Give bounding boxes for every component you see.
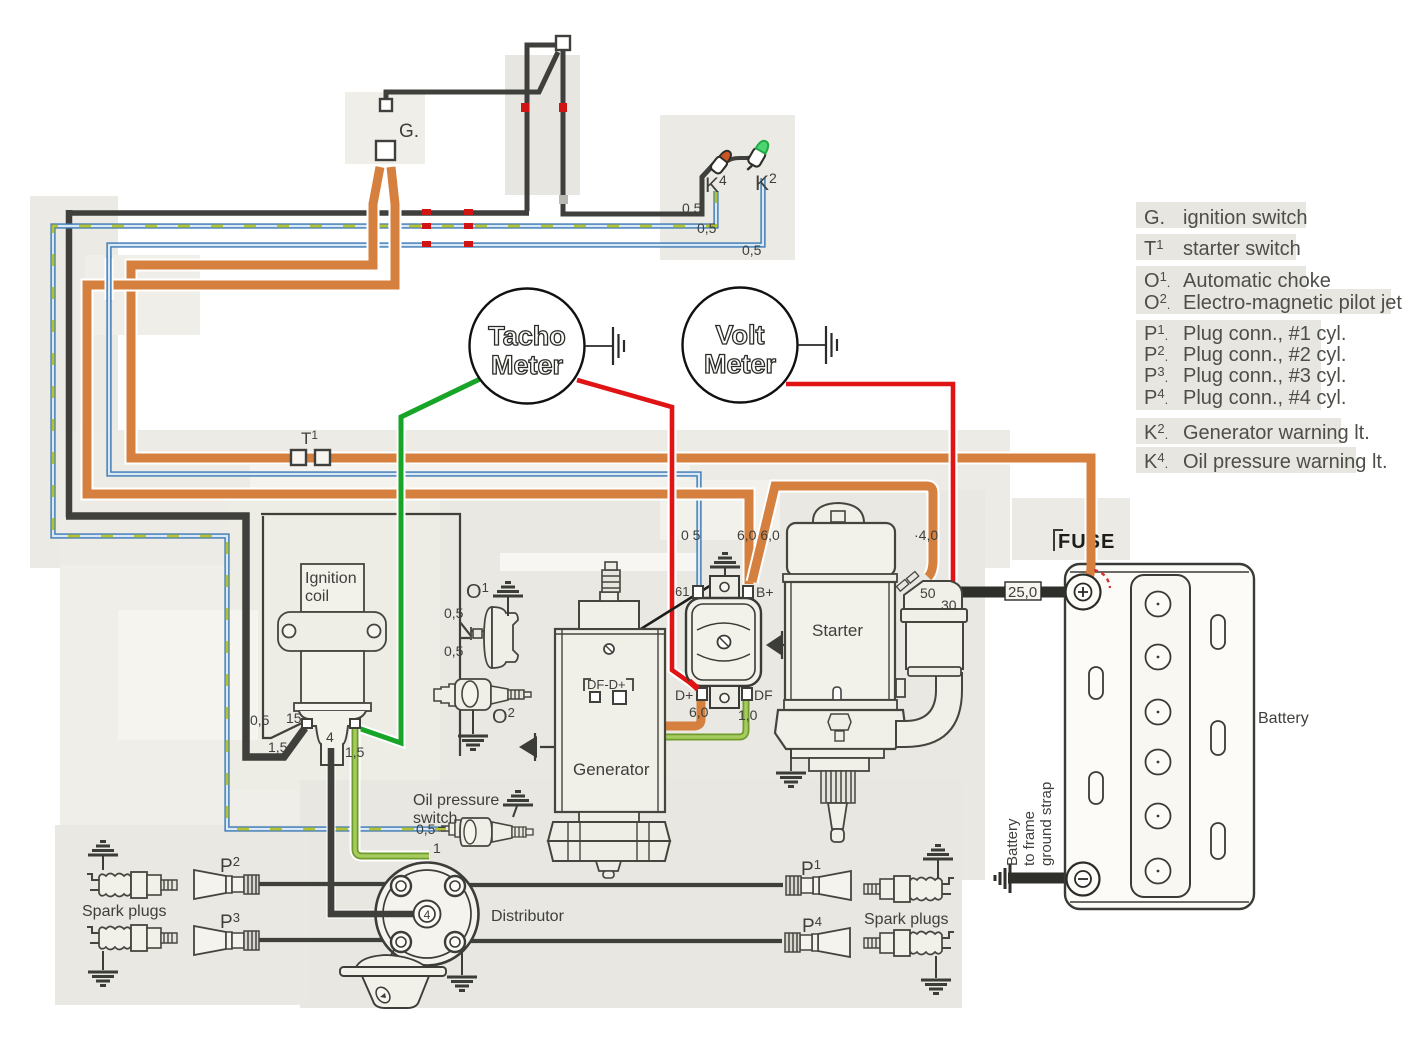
tacho meter: [470, 289, 585, 404]
svg-text:0,5: 0,5: [682, 200, 702, 216]
svg-text:Tacho: Tacho: [488, 321, 566, 351]
ground below lower right spark plug: [935, 956, 937, 978]
svg-text:ground strap: ground strap: [1038, 782, 1055, 866]
ground below distributor: [461, 950, 463, 975]
plug connector P1: [786, 871, 851, 900]
svg-text:B+: B+: [756, 584, 774, 600]
ground at volt meter: [798, 344, 826, 346]
generator pulley: [548, 812, 670, 878]
ignition switch G terminal squares: [376, 36, 570, 160]
ground below starter flange: [790, 749, 792, 771]
automatic choke O1: [471, 607, 518, 668]
wire black from top square down and right to K4 lamp: [563, 50, 714, 214]
svg-text:0,5: 0,5: [697, 220, 717, 236]
svg-text:6,0: 6,0: [689, 704, 709, 720]
ground arrow near pilot jet to generator: [535, 733, 556, 761]
spark plug lower left: [87, 925, 177, 951]
starter solenoid: [896, 571, 967, 747]
svg-text:Volt: Volt: [716, 320, 765, 350]
svg-text:Spark plugs: Spark plugs: [82, 903, 167, 920]
red dashed fuse arc at battery plus: [1094, 570, 1110, 588]
ground above automatic choke: [507, 597, 509, 616]
25,0 label box on battery cable: [1005, 582, 1041, 601]
wire orange regulator D+ to generator D+: [620, 690, 701, 726]
svg-text:coil: coil: [305, 588, 329, 605]
regulator terminal 61: [693, 586, 703, 598]
wire black K4 to K2 lamp link: [726, 157, 752, 162]
regulator: [686, 576, 761, 708]
wire black long horizontal to left trunk: [69, 210, 529, 216]
ground at tacho meter: [585, 345, 613, 347]
svg-text:0,5: 0,5: [444, 643, 464, 659]
svg-text:Oil pressure: Oil pressure: [413, 792, 499, 809]
plug connector P4: [785, 928, 850, 957]
battery minus terminal: [1067, 863, 1100, 896]
wire red volt meter to solenoid 30: [786, 384, 953, 584]
wire black distributor to P1: [455, 883, 783, 887]
ground at battery strap end: [995, 864, 1010, 893]
ground below pilot jet O2: [472, 710, 474, 734]
wire orange regulator B+ to starter solenoid 4,0: [752, 486, 933, 582]
wire blue K2 to regulator terminal 61: [109, 178, 763, 585]
ignition coil terminal 1: [350, 719, 360, 728]
wire orange into battery plus: [1083, 552, 1091, 585]
svg-text:O2.Electro-magnetic pilot jet: O2.Electro-magnetic pilot jet: [1144, 291, 1402, 314]
volt meter: [683, 288, 798, 403]
wire red tacho meter to regulator D+: [577, 380, 696, 687]
wire black distributor to P4: [455, 939, 782, 943]
wire black from top square left-down to left trunk: [527, 45, 558, 211]
ground above upper right spark plug: [937, 860, 939, 878]
wire olive ignition coil terminal 1 to distributor: [355, 729, 429, 856]
electro-magnetic pilot jet O2: [434, 679, 531, 710]
wire black thick battery ground strap: [1008, 873, 1078, 884]
svg-text:DF: DF: [754, 687, 773, 703]
ground arrow near starter left: [782, 631, 787, 659]
svg-text:0,5: 0,5: [444, 605, 464, 621]
spark plug upper right: [864, 876, 954, 902]
svg-text:61: 61: [675, 584, 689, 599]
svg-text:Spark plugs: Spark plugs: [864, 911, 949, 928]
generator: [555, 562, 665, 812]
svg-text:Meter: Meter: [491, 350, 564, 380]
svg-text:Meter: Meter: [704, 349, 777, 379]
svg-text:0 5: 0 5: [681, 527, 701, 543]
svg-text:Distributor: Distributor: [491, 908, 565, 925]
svg-text:4: 4: [424, 908, 431, 922]
wire orange ignition switch to regulator B+: [87, 167, 749, 584]
ignition coil: [278, 564, 386, 765]
spark plug lower right: [864, 930, 954, 956]
wire olive generator DF to regulator DF: [595, 699, 746, 737]
svg-text:0,5: 0,5: [742, 242, 762, 258]
red crossing marks: [422, 103, 567, 247]
connector mark on K4 black wire: [559, 195, 568, 204]
legend background patches: [1136, 202, 1391, 473]
svg-text:0,5: 0,5: [250, 712, 270, 728]
plug connector P3: [194, 926, 259, 955]
battery: [1065, 564, 1254, 909]
regulator terminal DF: [742, 688, 752, 700]
svg-text:1: 1: [433, 840, 441, 856]
regulator terminal B+: [743, 586, 753, 598]
oil pressure switch: [441, 818, 533, 846]
starter: [775, 503, 906, 842]
wire black distributor to P3: [259, 938, 401, 942]
wire orange ignition switch to T1 and fuse/battery: [131, 167, 1091, 584]
plug connector P2: [194, 870, 259, 899]
svg-text:·4,0: ·4,0: [914, 527, 938, 543]
svg-text:Battery: Battery: [1258, 710, 1309, 727]
wire black ignition coil 4 to distributor center: [331, 748, 420, 914]
wire blue-yellow K4 to oil pressure switch: [53, 191, 716, 829]
svg-text:25,0: 25,0: [1008, 584, 1037, 601]
svg-text:Ignition: Ignition: [305, 570, 357, 587]
wire black branch to automatic choke O1: [460, 622, 471, 638]
generator terminals DF and D+: [584, 679, 633, 704]
ground below lower left spark plug: [102, 951, 104, 970]
ignition coil terminal 15: [302, 719, 312, 728]
wire black distributor to P2: [259, 882, 401, 886]
wire orange over fuse label: [1087, 524, 1096, 558]
svg-text:15: 15: [286, 710, 302, 726]
ground above upper left spark plug: [102, 856, 104, 870]
svg-text:D+: D+: [675, 687, 693, 703]
spark plug upper left: [87, 872, 177, 898]
svg-text:0,5=: 0,5=: [416, 821, 446, 837]
scan-gray background patches: [30, 55, 1130, 1008]
svg-text:Generator: Generator: [573, 760, 650, 779]
svg-text:DF-D+: DF-D+: [587, 677, 626, 692]
wire black left trunk vertical: [66, 210, 73, 517]
svg-text:to frame: to frame: [1021, 811, 1038, 866]
battery plus terminal: [1066, 575, 1101, 610]
ground above regulator: [724, 568, 726, 577]
svg-text:1,0: 1,0: [738, 707, 758, 723]
regulator terminal D+: [697, 688, 707, 700]
svg-text:50: 50: [920, 585, 936, 601]
svg-text:1,5: 1,5: [345, 744, 365, 760]
node T1 starter switch squares: [291, 450, 330, 465]
svg-text:30: 30: [941, 597, 957, 613]
svg-text:Battery: Battery: [1004, 818, 1021, 866]
svg-text:4: 4: [326, 729, 334, 745]
wire black trunk bottom to ignition coil terminal 15 (1,5): [66, 516, 305, 757]
wire black ignition switch feed (terminal to G square): [386, 52, 558, 106]
ground above oil pressure switch: [513, 806, 517, 817]
wire blue re-cross over orange (left bend): [105, 255, 114, 302]
svg-text:G.: G.: [399, 121, 419, 142]
lamp K2 generator warning light: [743, 138, 771, 174]
distributor vacuum canister: [340, 950, 446, 1008]
distributor: [331, 748, 479, 966]
svg-text:6,0 6,0: 6,0 6,0: [737, 527, 780, 543]
wire black thin 0,5 box from trunk over ignition coil to chokes: [263, 516, 302, 738]
wire black thick battery cable 25,0: [948, 587, 1072, 598]
svg-text:Starter: Starter: [812, 621, 863, 640]
fuse label and bracket: [1054, 530, 1115, 553]
lamp K4 oil pressure warning light: [709, 148, 734, 175]
wire green tacho meter to ignition coil terminal 1: [358, 379, 480, 743]
svg-text:1,5: 1,5: [268, 739, 288, 755]
wire black regulator ground pointer: [612, 582, 716, 647]
